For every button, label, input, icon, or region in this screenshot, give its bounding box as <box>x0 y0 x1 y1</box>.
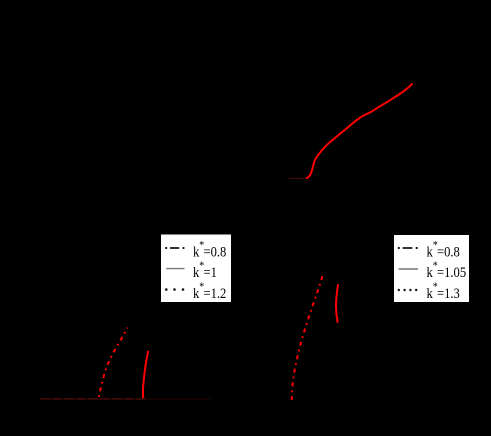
right legend box <box>394 235 469 302</box>
right legend dash-dot sample <box>398 247 418 249</box>
right legend dotted sample <box>398 289 418 291</box>
right plot faint residue line at lower branch tip <box>289 177 307 179</box>
right plot big solid S-curve k*=1.05 upper branch <box>306 84 412 179</box>
left plot dotted k*=1.2 curve lying on axis <box>41 398 147 400</box>
left plot dash-dot curve k*=0.8 <box>99 328 128 398</box>
right legend solid sample <box>399 268 418 270</box>
left plot solid curve k*=1 <box>143 351 148 398</box>
left legend box <box>161 235 231 303</box>
left legend solid sample <box>166 268 184 270</box>
left plot x-axis (dark red residue line) <box>41 398 146 400</box>
right plot dash-dot curve k*=0.8 <box>292 276 323 400</box>
right plot short solid curve k*=1.05 lower branch <box>336 284 338 323</box>
left legend dotted sample <box>165 288 184 291</box>
left legend dash-dot sample <box>165 247 185 249</box>
